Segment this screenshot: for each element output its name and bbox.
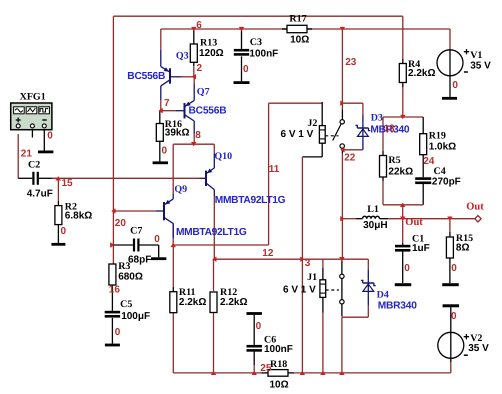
svg-text:Q9: Q9 bbox=[174, 184, 187, 195]
node junction 11 bbox=[212, 257, 216, 262]
wire R2 top lead bbox=[57, 201, 59, 206]
svg-text:1uF: 1uF bbox=[412, 243, 430, 254]
wire node7 horizontal bbox=[160, 110, 176, 112]
svg-text:6 V 1 V: 6 V 1 V bbox=[283, 285, 316, 296]
node junction 10 bbox=[171, 243, 176, 247]
svg-text:R19: R19 bbox=[429, 131, 446, 142]
svg-text:23: 23 bbox=[345, 57, 357, 68]
wire Q10 emitter navy bbox=[213, 154, 215, 169]
resistor R18 bbox=[268, 370, 288, 377]
diode D4 bbox=[361, 280, 376, 305]
wire R4 bottom lead bbox=[402, 83, 404, 88]
net 23 label bbox=[345, 57, 357, 68]
switch J1 ref label bbox=[307, 272, 317, 283]
diode D3 bbox=[356, 125, 371, 149]
svg-text:10Ω: 10Ω bbox=[290, 35, 309, 46]
wire XFG1 mid stub bbox=[31, 128, 33, 138]
wire Q9 collector down bbox=[172, 223, 174, 245]
wire net20 left border vertical bbox=[112, 16, 114, 264]
svg-text:Q3: Q3 bbox=[176, 51, 189, 62]
transistor Q10 bbox=[206, 168, 214, 190]
resistor R2 value label bbox=[65, 210, 92, 221]
svg-text:1.0kΩ: 1.0kΩ bbox=[429, 142, 456, 153]
svg-text:18: 18 bbox=[384, 124, 396, 135]
net 0 label bbox=[47, 130, 53, 141]
svg-text:C5: C5 bbox=[120, 299, 132, 310]
diode D4 ref label bbox=[377, 289, 389, 300]
svg-text:39kΩ: 39kΩ bbox=[165, 128, 190, 139]
svg-text:6: 6 bbox=[196, 20, 202, 31]
svg-text:0: 0 bbox=[115, 327, 121, 338]
wire C6 top stem bbox=[253, 315, 255, 345]
wire L1 right lead bbox=[380, 218, 389, 220]
svg-text:2.2kΩ: 2.2kΩ bbox=[220, 297, 247, 308]
resistor R13 value label bbox=[199, 48, 224, 59]
wire net20 horizontal to Q9 base bbox=[113, 210, 156, 212]
XFG1 ref label bbox=[20, 92, 46, 103]
wire C3 stem top bbox=[241, 29, 243, 49]
wire C1 bottom stem bbox=[402, 251, 404, 283]
wire R15 top bbox=[449, 219, 451, 232]
svg-text:2.2kΩ: 2.2kΩ bbox=[179, 297, 206, 308]
wire R5 bottom lead bbox=[382, 177, 384, 181]
net 12 label bbox=[262, 248, 274, 259]
net 24 label bbox=[423, 156, 435, 167]
svg-text:MBR340: MBR340 bbox=[378, 300, 418, 311]
wire R17 left lead bbox=[282, 28, 287, 30]
wire D3 top vertical bbox=[362, 103, 364, 115]
resistor R4 bbox=[399, 64, 406, 83]
wire out line right bbox=[388, 218, 475, 220]
wire R11 top lead bbox=[172, 287, 174, 292]
svg-text:20: 20 bbox=[115, 218, 127, 229]
wire L1 left lead bbox=[356, 218, 363, 220]
wire snubber to out bbox=[402, 205, 404, 219]
node junction 4 bbox=[158, 108, 162, 113]
ground C6 top bbox=[247, 312, 262, 315]
wire R15 top lead bbox=[449, 232, 451, 237]
svg-text:2: 2 bbox=[197, 63, 203, 74]
node junction 6 bbox=[191, 27, 196, 31]
resistor R19 ref label bbox=[429, 131, 446, 142]
svg-text:C2: C2 bbox=[28, 160, 40, 171]
svg-text:35 V: 35 V bbox=[470, 61, 491, 72]
wire C7 gnd stem bbox=[158, 245, 160, 257]
capacitor C5 value label bbox=[121, 311, 150, 322]
wire Q3 collector navy bbox=[160, 86, 162, 100]
node Out pin label bbox=[466, 202, 484, 213]
svg-text:R13: R13 bbox=[200, 38, 217, 49]
capacitor C7 value label bbox=[128, 254, 151, 265]
switch J1 bbox=[320, 274, 344, 304]
source V1 value label bbox=[470, 61, 491, 72]
wire D3 bottom horizontal bbox=[342, 149, 363, 151]
wire V2 top stem bbox=[450, 307, 452, 332]
wire R5 top vertical bbox=[382, 117, 384, 151]
wire J2 contact top stub bbox=[341, 110, 343, 120]
net 15 label bbox=[62, 178, 74, 189]
diode D4 model label bbox=[378, 300, 418, 311]
capacitor C6 value label bbox=[264, 344, 293, 355]
transistor Q10 label bbox=[214, 151, 232, 162]
net 0 label bbox=[115, 327, 121, 338]
wire R5 bottom vertical bbox=[382, 181, 384, 205]
wire D3 top horizontal bbox=[342, 102, 363, 104]
resistor R5 value label bbox=[388, 167, 413, 178]
wire net8 to Q10 emitter bbox=[213, 144, 215, 153]
wire C2 right lead bbox=[39, 177, 52, 179]
wire R16 top lead bbox=[159, 111, 161, 124]
svg-text:BC556B: BC556B bbox=[127, 71, 165, 82]
wire rail horizontal left bbox=[173, 372, 261, 374]
wire node2 to Q7 emitter bbox=[193, 77, 195, 84]
wire J1 key bottom to rail bbox=[322, 313, 324, 373]
transistor Q9 model label bbox=[176, 227, 247, 238]
wire J2 key bottom stub bbox=[321, 143, 323, 157]
net 0 label bbox=[256, 321, 262, 332]
inductor L1 value label bbox=[363, 220, 387, 231]
wire Q9 base navy bbox=[156, 210, 164, 212]
capacitor C3 ref label bbox=[250, 37, 262, 48]
wire net15 C2 left lead bbox=[18, 177, 32, 179]
wire J1 key bottom stub bbox=[322, 298, 324, 313]
wire R18 right lead bbox=[288, 372, 294, 374]
net 0 label bbox=[452, 80, 458, 91]
wire J1 key top stub red bbox=[322, 259, 324, 268]
wire Q3 collector to node7 bbox=[160, 100, 162, 111]
wire C5 bottom stem bbox=[111, 318, 113, 344]
svg-text:0: 0 bbox=[47, 130, 53, 141]
net 0 label bbox=[243, 64, 249, 75]
svg-text:100nF: 100nF bbox=[249, 48, 278, 59]
wire R17 right lead bbox=[307, 28, 312, 30]
net 22 label bbox=[344, 152, 356, 163]
wire R12 bottom to rail bbox=[213, 313, 215, 373]
switch J2 ref label bbox=[307, 118, 317, 129]
ground R15 bbox=[442, 283, 459, 286]
resistor R13 ref label bbox=[200, 38, 217, 49]
node junction 15 bbox=[340, 147, 344, 152]
node junction 12 bbox=[300, 257, 304, 262]
wire C6 to rail bbox=[253, 365, 255, 373]
svg-text:12: 12 bbox=[262, 248, 274, 259]
svg-text:25: 25 bbox=[260, 363, 272, 374]
resistor R18 ref label bbox=[270, 359, 287, 370]
svg-text:68pF: 68pF bbox=[128, 254, 151, 265]
node junction 2 bbox=[111, 208, 115, 213]
transistor Q10 model label bbox=[215, 195, 286, 206]
source V1 ref label bbox=[470, 50, 482, 61]
wire R11 bottom to rail bbox=[172, 313, 174, 373]
resistor R19 value label bbox=[429, 142, 456, 153]
node Out pin diamond bbox=[475, 216, 481, 222]
source V2 value label bbox=[468, 343, 489, 354]
net 0 label bbox=[61, 226, 67, 237]
svg-text:0: 0 bbox=[61, 226, 67, 237]
wire R3 bottom to C5 bbox=[111, 285, 113, 311]
capacitor C2 value label bbox=[27, 188, 53, 199]
wire C1 top bbox=[402, 219, 404, 243]
node junction 5 bbox=[192, 74, 196, 79]
net 16 label bbox=[109, 285, 121, 296]
source V2 ref label bbox=[470, 333, 482, 344]
wire D4 top vertical bbox=[367, 259, 369, 270]
resistor R16 value label bbox=[165, 128, 190, 139]
ground R2 bbox=[51, 243, 65, 246]
svg-text:J2: J2 bbox=[307, 118, 317, 129]
diode D3 model label bbox=[370, 124, 410, 135]
resistor R3 value label bbox=[118, 271, 143, 282]
resistor R15 bbox=[446, 237, 453, 258]
ground C1 bbox=[395, 283, 412, 286]
resistor R2 ref label bbox=[65, 201, 77, 212]
svg-text:0: 0 bbox=[162, 145, 168, 156]
wire snubber top horizontal bbox=[383, 116, 423, 118]
wire Q7 base navy bbox=[176, 110, 185, 112]
resistor R11 bbox=[170, 292, 177, 313]
wire out line left bbox=[342, 218, 356, 220]
wire R4 bottom vertical bbox=[402, 87, 404, 117]
svg-text:0: 0 bbox=[404, 263, 410, 274]
wire rail horizontal right bbox=[294, 372, 451, 374]
net 0 label bbox=[451, 263, 457, 274]
capacitor C4 value label bbox=[432, 177, 461, 188]
wire net20 top border horizontal bbox=[113, 15, 402, 17]
wire snubber bottom horizontal bbox=[383, 204, 423, 206]
wire V1 top bbox=[449, 29, 451, 50]
svg-text:7: 7 bbox=[164, 98, 170, 109]
svg-text:6.8kΩ: 6.8kΩ bbox=[65, 210, 92, 221]
svg-text:8: 8 bbox=[195, 130, 201, 141]
svg-text:100μF: 100μF bbox=[121, 311, 150, 322]
resistor R11 value label bbox=[179, 297, 206, 308]
svg-text:MMBTA92LT1G: MMBTA92LT1G bbox=[215, 195, 286, 206]
capacitor C4 ref label bbox=[434, 166, 446, 177]
wire C7 right lead bbox=[140, 244, 159, 246]
resistor R16 bbox=[156, 124, 163, 142]
capacitor C6 ref label bbox=[264, 335, 276, 346]
wire R18 left lead bbox=[262, 372, 269, 374]
resistor R17 bbox=[287, 25, 307, 32]
wire C4 bottom lead bbox=[422, 184, 424, 205]
net 18 label bbox=[384, 124, 396, 135]
net 8 label bbox=[195, 130, 201, 141]
wire net8 horizontal bbox=[173, 143, 214, 145]
switch J2 bbox=[319, 120, 344, 149]
svg-text:0: 0 bbox=[452, 80, 458, 91]
svg-text:270pF: 270pF bbox=[432, 177, 461, 188]
node junction 19 bbox=[400, 217, 405, 221]
wire R4 top vertical bbox=[402, 16, 404, 59]
resistor R3 bbox=[109, 264, 116, 285]
wire V2 bottom to rail bbox=[450, 362, 452, 373]
resistor R19 bbox=[420, 134, 427, 155]
node junction 18 bbox=[400, 203, 405, 207]
svg-text:24: 24 bbox=[423, 156, 435, 167]
svg-text:C7: C7 bbox=[130, 226, 142, 237]
svg-text:V1: V1 bbox=[470, 50, 482, 61]
svg-text:XFG1: XFG1 bbox=[20, 92, 46, 103]
net 7 label bbox=[164, 98, 170, 109]
node junction 3 bbox=[110, 242, 114, 247]
wire D3 top navy bbox=[362, 115, 364, 128]
wire C3 bottom stem bbox=[241, 56, 243, 81]
transistor Q3 model label bbox=[127, 71, 165, 82]
wire net3 vertical x303 bbox=[301, 157, 303, 373]
wire J2 key top stub bbox=[321, 102, 323, 126]
wire R19 top lead bbox=[422, 117, 424, 134]
wire net11 top horizontal bbox=[269, 102, 323, 104]
resistor R3 ref label bbox=[118, 261, 130, 272]
wire J1 contact bottom stub bbox=[341, 304, 343, 316]
wire net8 to Q9 emitter bbox=[172, 144, 174, 193]
inductor L1 bbox=[363, 216, 380, 218]
source V2 minus sign bbox=[464, 354, 468, 356]
wire net11 vertical bbox=[268, 103, 270, 245]
wire net12 horizontal bbox=[214, 258, 368, 260]
wire R13 bottom to node2 red bbox=[193, 66, 195, 77]
svg-text:0: 0 bbox=[154, 234, 160, 245]
function generator XFG1 bbox=[11, 103, 52, 130]
node junction 14 bbox=[340, 101, 344, 106]
source V2 plus sign bbox=[464, 334, 469, 339]
node junction 1 bbox=[56, 176, 61, 180]
source V1 plus sign bbox=[464, 49, 469, 54]
wire R13 top lead bbox=[193, 29, 195, 44]
wire XFG1 minus stem bbox=[43, 128, 45, 151]
transistor Q7 bbox=[185, 100, 195, 121]
wire XFG1 plus down bbox=[17, 134, 19, 178]
wire Q3 emitter navy bbox=[160, 50, 162, 67]
svg-text:22kΩ: 22kΩ bbox=[388, 167, 413, 178]
wire V1 bottom stem bbox=[449, 76, 451, 97]
switch J2 value label bbox=[281, 129, 314, 140]
net 3 label bbox=[305, 258, 311, 269]
wire net23 vertical bbox=[341, 29, 343, 110]
source V1 minus sign bbox=[464, 71, 468, 73]
capacitor C2 bbox=[32, 172, 39, 185]
capacitor C3 value label bbox=[249, 48, 278, 59]
svg-text:R17: R17 bbox=[289, 14, 306, 25]
capacitor C5 bbox=[105, 311, 120, 318]
resistor R15 ref label bbox=[456, 233, 473, 244]
svg-text:2.2kΩ: 2.2kΩ bbox=[408, 68, 435, 79]
wire R4 top lead bbox=[402, 59, 404, 64]
wire R13 bottom to node2 bbox=[193, 62, 195, 66]
node Out wire label bbox=[405, 217, 423, 228]
wire J1 contact top stub bbox=[341, 259, 343, 274]
wire D4 top navy bbox=[367, 270, 369, 283]
resistor R12 ref label bbox=[220, 287, 237, 298]
net 2 label bbox=[197, 63, 203, 74]
wire Q10 collector down bbox=[213, 197, 215, 260]
wire R12 top lead bbox=[213, 259, 215, 291]
resistor R11 ref label bbox=[179, 287, 196, 298]
node junction 7 bbox=[239, 27, 244, 31]
wire Q7 emitter navy bbox=[193, 83, 195, 100]
resistor R4 ref label bbox=[408, 59, 420, 70]
transistor Q9 bbox=[164, 199, 173, 224]
wire J2 key jog horizontal bbox=[302, 156, 322, 158]
net 6 label bbox=[196, 20, 202, 31]
svg-text:11: 11 bbox=[269, 164, 280, 175]
wire x342 to rail bbox=[341, 317, 343, 373]
transistor Q9 label bbox=[174, 184, 187, 195]
resistor R18 value label bbox=[270, 379, 289, 390]
resistor R5 bbox=[380, 156, 387, 178]
wire R11 top vertical bbox=[172, 245, 174, 287]
node junction 17 bbox=[400, 115, 405, 119]
svg-text:4.7uF: 4.7uF bbox=[27, 188, 53, 199]
capacitor C7 ref label bbox=[130, 226, 142, 237]
resistor R5 ref label bbox=[388, 155, 400, 166]
net 0 label bbox=[451, 311, 457, 322]
resistor R12 value label bbox=[220, 297, 247, 308]
node junction 24 bbox=[320, 371, 325, 375]
capacitor C7 bbox=[133, 239, 140, 252]
node junction 9 bbox=[191, 142, 196, 146]
wire R15 bottom stem bbox=[449, 258, 451, 283]
svg-text:R18: R18 bbox=[270, 359, 287, 370]
ground C5 bbox=[105, 344, 120, 347]
capacitor C2 ref label bbox=[28, 160, 40, 171]
node junction 25 bbox=[339, 371, 344, 375]
transistor Q7 model label bbox=[189, 106, 227, 117]
ground C3 bbox=[234, 81, 250, 84]
wire Q9 emitter navy bbox=[172, 194, 174, 199]
ground V2 bbox=[443, 304, 460, 307]
wire J2 contact bottom stub bbox=[341, 148, 343, 153]
svg-text:680Ω: 680Ω bbox=[118, 271, 143, 282]
wire node2 horizontal bbox=[182, 76, 194, 78]
wire R2 top bbox=[57, 178, 59, 201]
ground C7 bbox=[151, 257, 166, 260]
net 0 label bbox=[404, 263, 410, 274]
transistor Q7 label bbox=[197, 87, 210, 98]
wire Q3 base navy bbox=[170, 76, 182, 78]
svg-text:D3: D3 bbox=[371, 113, 383, 124]
wire R5 top lead bbox=[382, 151, 384, 156]
wire Q10 base navy bbox=[200, 177, 207, 179]
svg-text:Out: Out bbox=[405, 217, 423, 228]
svg-text:3: 3 bbox=[305, 258, 311, 269]
wire net6 / V1+ horizontal rail bbox=[161, 28, 450, 30]
capacitor C1 ref label bbox=[412, 234, 424, 245]
svg-text:6 V 1 V: 6 V 1 V bbox=[281, 129, 314, 140]
svg-text:J1: J1 bbox=[307, 272, 317, 283]
resistor R15 value label bbox=[456, 242, 470, 253]
capacitor C1 bbox=[395, 245, 410, 252]
svg-text:MMBTA92LT1G: MMBTA92LT1G bbox=[176, 227, 247, 238]
ground R16 bbox=[153, 161, 168, 164]
wire R2 bottom stem bbox=[57, 225, 59, 243]
svg-text:C3: C3 bbox=[250, 37, 262, 48]
svg-text:120Ω: 120Ω bbox=[199, 48, 224, 59]
capacitor C4 bbox=[415, 177, 431, 184]
capacitor C6 bbox=[247, 345, 262, 352]
wire Q10 collector navy bbox=[213, 190, 215, 197]
svg-text:BC556B: BC556B bbox=[189, 106, 227, 117]
svg-text:Q7: Q7 bbox=[197, 87, 210, 98]
ground XFG1 bbox=[38, 151, 53, 154]
resistor R16 ref label bbox=[165, 119, 182, 130]
capacitor C1 value label bbox=[412, 243, 430, 254]
svg-text:L1: L1 bbox=[367, 204, 379, 215]
svg-text:0: 0 bbox=[451, 263, 457, 274]
node junction 8 bbox=[340, 27, 345, 31]
node junction 13 bbox=[339, 257, 344, 261]
net 21 label bbox=[21, 148, 33, 159]
